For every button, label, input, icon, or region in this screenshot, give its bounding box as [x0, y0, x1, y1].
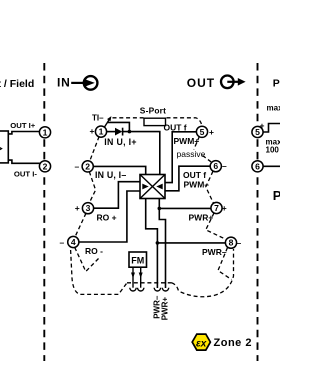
- Ex hexagon symbol: [192, 334, 210, 350]
- device box left edge (previous device, clipped): [0, 131, 8, 163]
- svg-text:5: 5: [200, 127, 205, 137]
- svg-text:PWM–: PWM–: [184, 179, 210, 189]
- svg-text:PWM+: PWM+: [174, 136, 200, 146]
- terminal 4: [68, 236, 79, 247]
- transformer isolator T1: [140, 175, 165, 199]
- svg-text:OUT: OUT: [187, 76, 215, 90]
- svg-text:FM: FM: [131, 255, 144, 265]
- svg-text:+: +: [209, 127, 214, 137]
- diode D1: [115, 128, 123, 136]
- svg-text:7: 7: [214, 203, 219, 213]
- module boundary zigzag near terminal 8: [218, 248, 232, 280]
- svg-text:+: +: [75, 203, 80, 213]
- svg-text:IN U, I–: IN U, I–: [95, 170, 126, 180]
- junction dot after diode: [128, 130, 132, 134]
- module boundary dash terminal 5 to 6 upper: [194, 137, 200, 150]
- svg-text:8: 8: [229, 238, 234, 248]
- svg-text:t / Field: t / Field: [0, 78, 34, 90]
- junction dot PWR-: [156, 241, 160, 245]
- TI bypass wire around diode: [107, 122, 129, 131]
- zone boundary dashed line right: [257, 63, 259, 361]
- svg-text:Zone 2: Zone 2: [214, 337, 252, 349]
- svg-text:passive: passive: [177, 149, 206, 159]
- wire left box to terminal 1: [8, 132, 40, 134]
- svg-text:2: 2: [43, 161, 48, 171]
- svg-text:S-Port: S-Port: [140, 106, 166, 116]
- svg-text:RO +: RO +: [97, 212, 117, 222]
- module boundary bottom rail through plug terminals: [127, 282, 172, 284]
- svg-text:6: 6: [255, 161, 260, 171]
- wire terminal 4 to transformer left lower: [79, 191, 140, 242]
- right external wire from terminal 5: [262, 124, 280, 133]
- wire junction to terminal 7: [159, 207, 211, 209]
- wire transformer bottom left to PWR- plug: [146, 199, 158, 289]
- wire terminal 1 to diode: [106, 131, 115, 133]
- module boundary dash terminal 5 to 6 lower: [203, 156, 212, 163]
- wire transformer right upper to terminal 5: [165, 132, 197, 183]
- svg-text:–: –: [75, 161, 80, 171]
- right external wire from terminal 6: [262, 165, 280, 167]
- module boundary dash terminal 1 to 2: [90, 137, 100, 162]
- wire terminal 2 to transformer top left: [93, 166, 146, 174]
- S-Port connector box: [144, 118, 166, 125]
- module boundary zigzag terminal 7 to 8: [206, 213, 227, 240]
- terminal circle left 1: [39, 127, 50, 138]
- module boundary zigzag terminal 6 to 7: [206, 171, 214, 203]
- svg-text:–: –: [60, 238, 65, 248]
- svg-text:4: 4: [71, 237, 76, 247]
- module boundary chevron below terminal 4: [75, 247, 100, 271]
- junction dot PWR+: [158, 207, 162, 211]
- terminal 3: [82, 203, 93, 214]
- terminal 8: [225, 237, 236, 248]
- svg-text:IN U, I+: IN U, I+: [104, 137, 136, 147]
- svg-text:1: 1: [43, 127, 48, 137]
- module boundary dash S-Port to terminal 5: [167, 118, 203, 126]
- svg-text:OUT I+: OUT I+: [10, 121, 35, 130]
- wire junction to terminal 8: [157, 242, 225, 244]
- svg-text:OUT f: OUT f: [164, 122, 187, 132]
- terminal circle right 5: [252, 126, 263, 137]
- plug socket terminal PWR+: [162, 288, 168, 291]
- svg-text:OUT I-: OUT I-: [14, 169, 37, 178]
- OUT port symbol: [187, 76, 246, 91]
- terminal 6: [210, 161, 221, 172]
- svg-text:+: +: [90, 126, 95, 136]
- module boundary zigzag terminal 2 to 3: [89, 172, 95, 203]
- IN port symbol: [57, 76, 97, 90]
- FM power module box: [129, 252, 147, 267]
- module boundary dash terminal 3 to 4: [75, 213, 86, 237]
- module boundary dash top from TI to S-Port: [113, 117, 144, 119]
- svg-text:P: P: [273, 188, 280, 203]
- plug socket terminal FM left: [130, 288, 136, 291]
- svg-text:5: 5: [255, 127, 260, 137]
- module boundary bottom right arc to terminal 8: [172, 249, 234, 297]
- svg-text:1: 1: [99, 127, 104, 137]
- FM output wire left with arrow: [131, 267, 135, 288]
- svg-text:100: 100: [266, 146, 280, 155]
- terminal 5: [196, 126, 207, 137]
- FM output wire right with arrow: [139, 267, 143, 288]
- terminal circle right 6: [252, 161, 263, 172]
- svg-text:TI–: TI–: [92, 114, 104, 123]
- svg-text:PWR–: PWR–: [202, 247, 227, 257]
- svg-text:–: –: [222, 161, 227, 171]
- svg-text:P: P: [273, 78, 280, 90]
- svg-text:2: 2: [85, 161, 90, 171]
- wire terminal 3 to transformer left upper: [93, 182, 140, 209]
- glyph fragment in left box: [0, 147, 2, 151]
- svg-text:RO -: RO -: [85, 246, 103, 256]
- terminal 2: [82, 161, 93, 172]
- wire left box to terminal 2: [8, 160, 40, 163]
- terminal circle left 2: [39, 161, 50, 172]
- zone boundary dashed line left: [43, 63, 45, 361]
- wire transformer right lower to terminal 6: [165, 166, 211, 191]
- wire diode to transformer top right: [123, 132, 160, 175]
- TI test arrow at terminal 1: [104, 116, 112, 129]
- terminal 1: [95, 126, 106, 137]
- wire transformer bottom right to PWR+ plug: [159, 199, 165, 289]
- plug socket terminal FM right: [138, 288, 144, 291]
- svg-text:PWR+: PWR+: [160, 297, 169, 321]
- module boundary bottom left curve: [71, 250, 127, 294]
- svg-text:IN: IN: [57, 76, 71, 90]
- svg-text:εx: εx: [196, 338, 207, 349]
- svg-text:max: max: [267, 104, 281, 113]
- svg-text:PWR+: PWR+: [189, 212, 214, 222]
- plug socket terminal PWR-: [154, 288, 160, 291]
- svg-text:3: 3: [86, 203, 91, 213]
- svg-text:6: 6: [213, 161, 218, 171]
- terminal 7: [211, 202, 222, 213]
